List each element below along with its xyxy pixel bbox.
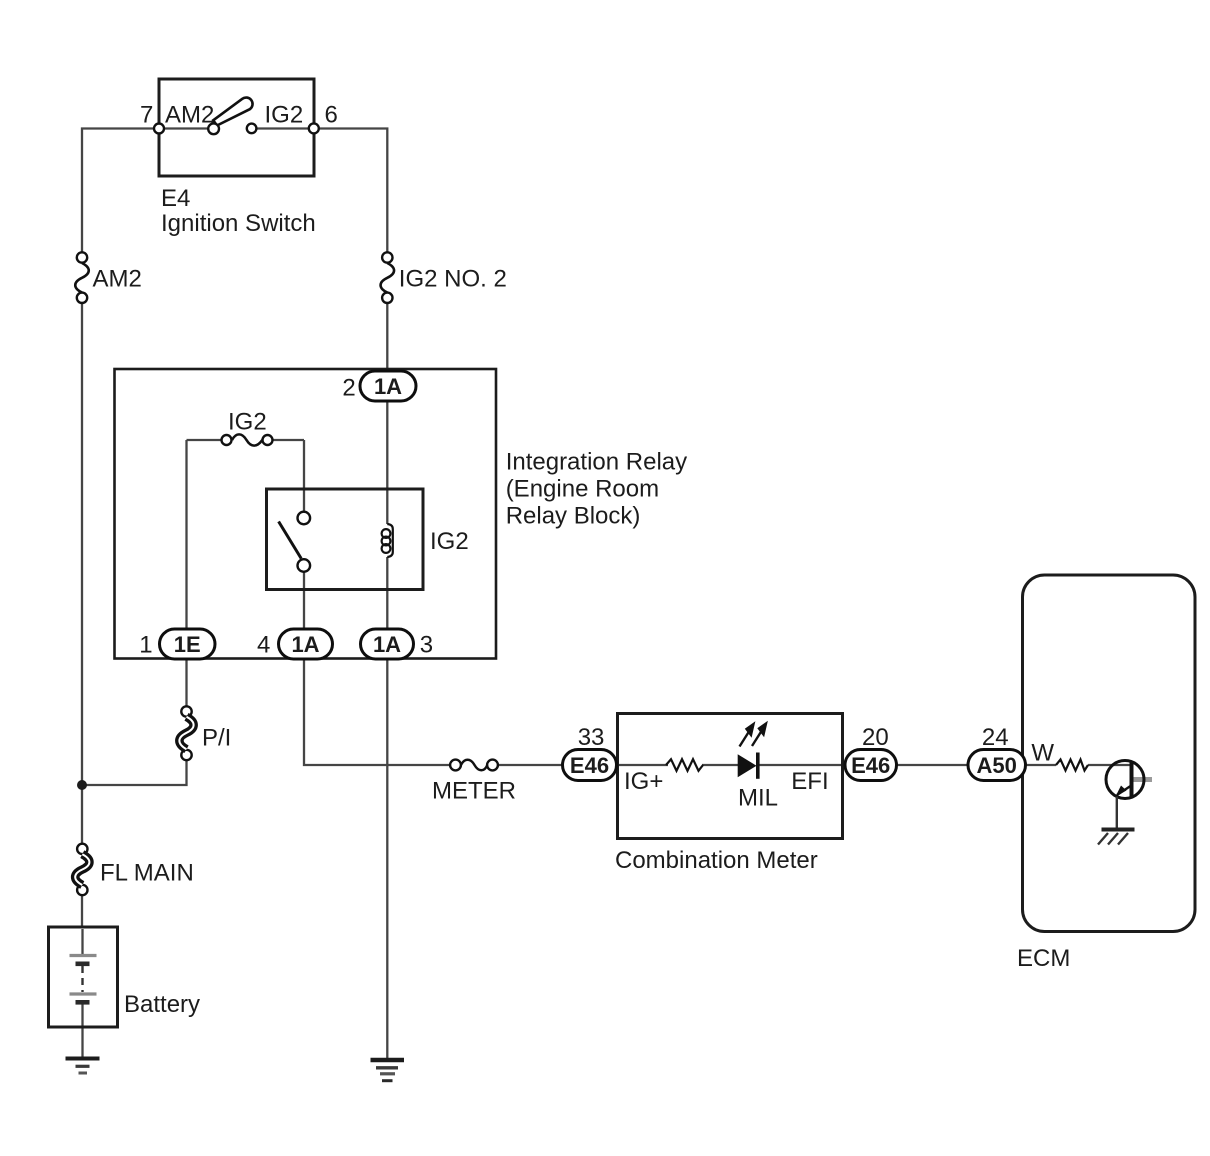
svg-text:E46: E46: [570, 753, 609, 778]
svg-text:IG2: IG2: [430, 528, 469, 555]
svg-text:IG2 NO. 2: IG2 NO. 2: [399, 266, 507, 293]
svg-text:1: 1: [139, 632, 152, 659]
svg-text:E46: E46: [851, 753, 890, 778]
svg-text:33: 33: [578, 724, 605, 751]
svg-text:Combination Meter: Combination Meter: [615, 847, 818, 874]
svg-text:EFI: EFI: [791, 768, 828, 795]
svg-text:METER: METER: [432, 778, 516, 805]
svg-text:IG+: IG+: [624, 768, 663, 795]
svg-text:6: 6: [325, 102, 338, 129]
svg-text:1A: 1A: [291, 632, 319, 657]
svg-text:Relay Block): Relay Block): [506, 503, 641, 530]
svg-text:E4: E4: [161, 185, 190, 212]
svg-text:AM2: AM2: [93, 266, 142, 293]
svg-text:2: 2: [342, 375, 355, 402]
svg-text:A50: A50: [977, 753, 1017, 778]
svg-text:1A: 1A: [374, 374, 402, 399]
svg-text:3: 3: [420, 632, 433, 659]
svg-text:IG2: IG2: [265, 102, 304, 129]
svg-text:20: 20: [862, 724, 889, 751]
svg-text:1A: 1A: [373, 632, 401, 657]
svg-text:FL MAIN: FL MAIN: [100, 860, 194, 887]
svg-text:IG2: IG2: [228, 409, 267, 436]
svg-text:MIL: MIL: [738, 785, 778, 812]
svg-text:4: 4: [257, 632, 270, 659]
svg-text:1E: 1E: [174, 632, 201, 657]
svg-text:Battery: Battery: [124, 991, 200, 1018]
svg-text:Ignition Switch: Ignition Switch: [161, 210, 316, 237]
svg-text:7: 7: [140, 102, 153, 129]
svg-text:ECM: ECM: [1017, 945, 1070, 972]
svg-text:AM2: AM2: [165, 102, 214, 129]
svg-text:Integration Relay: Integration Relay: [506, 449, 687, 476]
svg-text:W: W: [1031, 740, 1054, 767]
svg-text:P/I: P/I: [202, 725, 231, 752]
svg-text:24: 24: [982, 724, 1009, 751]
svg-text:(Engine Room: (Engine Room: [506, 476, 659, 503]
